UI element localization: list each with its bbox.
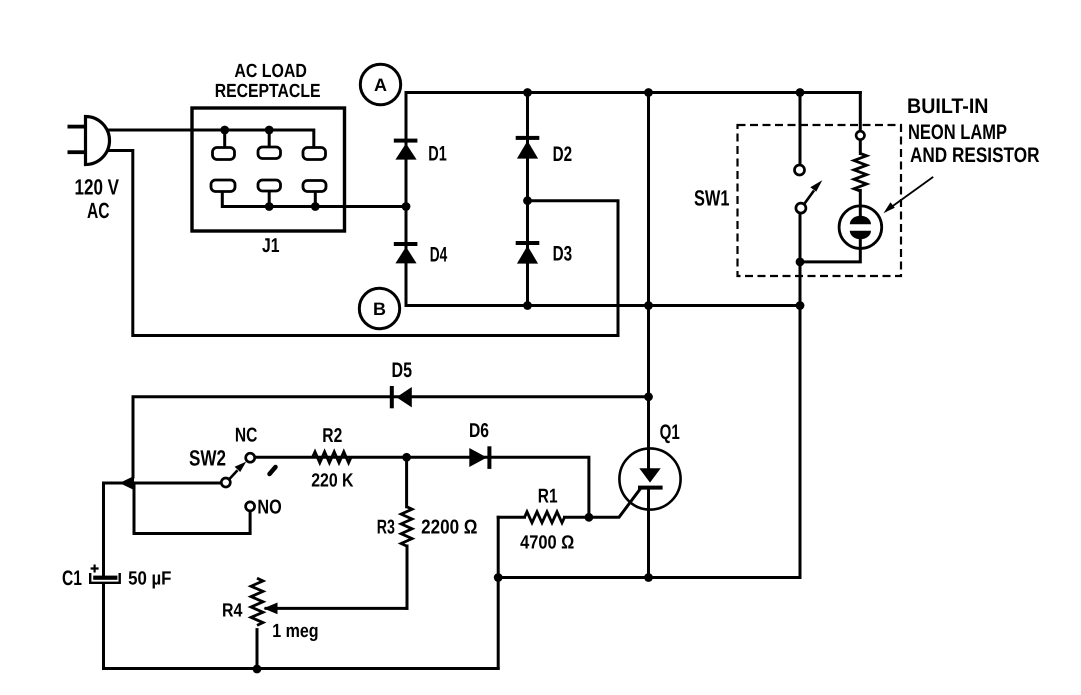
diode D4 — [394, 242, 418, 263]
junction dot receptacle bottom 3 — [311, 202, 320, 211]
pointer arrow to neon lamp — [884, 177, 934, 213]
diode D1 — [394, 139, 418, 160]
junction dot gate node — [585, 513, 594, 522]
junction dot top rail at D2 branch — [523, 88, 532, 97]
svg-text:2200 Ω: 2200 Ω — [421, 517, 477, 539]
capacitor C1 bottom plate — [90, 573, 120, 583]
junction dot receptacle bottom 2 — [265, 202, 274, 211]
wire SW1 upper lead — [799, 93, 802, 166]
wire top rail node A — [406, 91, 860, 94]
neon lamp lower electrode — [850, 231, 871, 240]
junction dot R2 R3 D6 node — [402, 453, 411, 462]
svg-text:SW2: SW2 — [189, 446, 226, 471]
svg-text:A: A — [374, 75, 387, 95]
svg-text:D1: D1 — [428, 143, 447, 166]
switch SW2 NC contact — [246, 453, 255, 462]
diode D5 — [390, 386, 412, 408]
receptacle contact bottom 3 — [303, 181, 326, 192]
svg-text:RECEPTACLE: RECEPTACLE — [215, 81, 321, 102]
wire R4 wiper line — [266, 607, 407, 610]
svg-text:D2: D2 — [553, 143, 573, 166]
switch SW2 motion tick — [270, 467, 276, 474]
neon lamp NE1 circle — [839, 206, 882, 249]
junction dot B rail at right vertical — [644, 301, 653, 310]
switch SW1 upper contact — [795, 165, 805, 175]
switch SW2 pole arrow at D5 junction — [120, 476, 135, 490]
receptacle contact bottom 1 — [211, 180, 235, 192]
svg-text:BUILT-IN: BUILT-IN — [907, 95, 989, 118]
receptacle J1 box — [192, 108, 345, 231]
junction dot cathode rail at Q1 — [644, 573, 653, 582]
wire bottom rail node B — [406, 304, 800, 307]
junction dot D5 at right vertical — [644, 392, 653, 401]
junction dot top rail at SW1 branch — [796, 88, 805, 97]
svg-text:50 µF: 50 µF — [128, 569, 171, 590]
svg-text:R3: R3 — [377, 517, 395, 539]
node A circle — [360, 64, 400, 104]
capacitor C1 plus sign — [91, 565, 99, 573]
wire bridge left vertical A to B — [405, 93, 408, 306]
svg-text:B: B — [373, 299, 386, 319]
svg-text:R2: R2 — [322, 425, 342, 447]
junction dot R4 bottom — [253, 665, 262, 674]
thyristor Q1 circle — [619, 448, 680, 509]
svg-text:D5: D5 — [392, 359, 413, 382]
wire D5 rail — [133, 397, 649, 477]
svg-text:J1: J1 — [262, 235, 280, 257]
receptacle contact bottom 2 — [258, 180, 281, 191]
svg-text:AND RESISTOR: AND RESISTOR — [910, 144, 1040, 167]
wire cathode bottom rail — [498, 576, 800, 579]
capacitor C1 top plate — [93, 576, 117, 580]
svg-text:SW1: SW1 — [694, 186, 730, 211]
AC plug P1 — [68, 117, 110, 165]
wire plug neutral to D2-D3 midpoint — [95, 151, 618, 336]
svg-text:220 K: 220 K — [311, 471, 354, 492]
junction dot cathode rail at R1 vertical — [494, 573, 503, 582]
wire R1 left vertical — [497, 517, 500, 668]
junction dot top rail at Q1 branch — [644, 88, 653, 97]
wire receptacle bottom feed — [222, 192, 406, 207]
receptacle contact top 3 — [303, 148, 326, 160]
wire SW2 NC output to D6 — [255, 457, 589, 517]
svg-text:R1: R1 — [538, 486, 558, 508]
switch SW1 lower contact — [796, 203, 806, 213]
wire R1 line and gate lead — [498, 489, 640, 518]
wire R4 bottom lead — [256, 630, 259, 669]
svg-text:1 meg: 1 meg — [272, 621, 318, 642]
resistor R4 1meg zigzag — [251, 578, 263, 625]
diode D6 — [469, 446, 491, 469]
wire Q1 cathode down — [647, 489, 650, 578]
neon lamp upper electrode — [850, 216, 871, 225]
svg-text:D3: D3 — [553, 243, 573, 266]
svg-text:120 V: 120 V — [75, 175, 120, 200]
receptacle contact top 1 — [213, 148, 235, 160]
switch SW2 NO contact — [246, 502, 255, 511]
wire SW2 pole lead — [104, 482, 222, 485]
wire C1 branch left vertical — [102, 483, 105, 669]
wire bridge middle vertical D2-D3 — [526, 93, 529, 306]
svg-text:NC: NC — [235, 425, 258, 447]
junction dot bridge AC input left — [402, 202, 411, 211]
svg-text:Q1: Q1 — [660, 421, 680, 444]
wire bottom rail to C1 — [104, 667, 499, 670]
wire right vertical to Q1 anode — [647, 93, 650, 469]
wire SW2 NO branch — [134, 486, 250, 534]
switch SW2 pole contact — [221, 478, 230, 487]
svg-text:AC: AC — [87, 198, 110, 223]
wire lamp branch top — [859, 93, 862, 132]
junction dot D2-D3 midpoint — [523, 196, 532, 205]
svg-text:C1: C1 — [62, 567, 82, 590]
resistor R1 4700ohm zigzag — [525, 512, 565, 523]
switch SW1 arm with arrow — [805, 180, 823, 203]
node B circle — [359, 288, 399, 328]
svg-text:R4: R4 — [222, 600, 243, 621]
thyristor Q1 triangle — [639, 468, 660, 482]
svg-text:D6: D6 — [469, 420, 489, 442]
junction dot B rail at SW1 vertical — [796, 301, 805, 310]
neon lamp open terminal — [856, 131, 864, 139]
resistor neon-lamp built-in zigzag — [854, 154, 867, 191]
wire SW1 lower lead — [799, 213, 802, 578]
svg-text:D4: D4 — [430, 244, 448, 267]
potentiometer R4 wiper arrow — [264, 603, 278, 615]
junction dot receptacle top 1 — [220, 126, 229, 135]
wire lamp resistor leads — [800, 140, 860, 262]
svg-text:4700 Ω: 4700 Ω — [520, 533, 574, 554]
switch SW2 arm with arrow — [229, 462, 246, 480]
receptacle contact top 2 — [258, 147, 281, 159]
resistor R2 220K zigzag — [313, 452, 351, 463]
wire receptacle top feed — [95, 130, 314, 148]
switch SW1 dashed enclosure — [738, 125, 902, 276]
junction dot B rail at D3 — [523, 301, 532, 310]
svg-text:NEON LAMP: NEON LAMP — [908, 121, 1007, 144]
junction dot SW1 lamp bottom — [796, 258, 805, 267]
resistor R3 2200ohm zigzag — [401, 507, 412, 546]
diode D2 — [516, 136, 540, 159]
wire R3 branch — [405, 457, 408, 608]
svg-text:AC LOAD: AC LOAD — [234, 61, 307, 82]
diode D3 — [516, 241, 540, 264]
thyristor Q1 cathode bar — [638, 486, 663, 490]
junction dot receptacle top 2 — [265, 126, 274, 135]
svg-text:NO: NO — [257, 497, 281, 519]
